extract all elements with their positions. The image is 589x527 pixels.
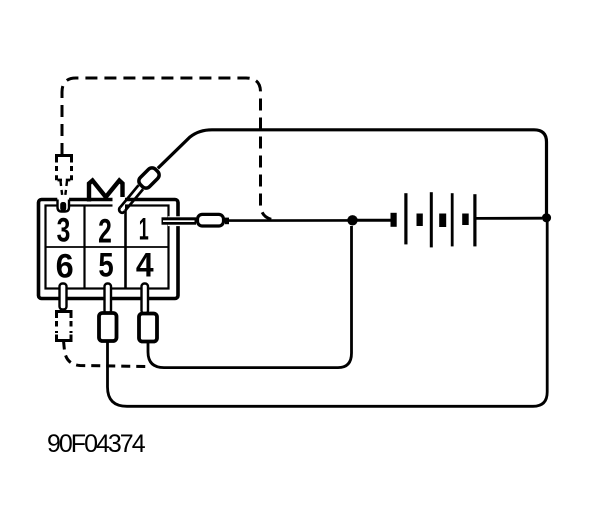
cavity number 2 (98, 213, 112, 251)
svg-text:4: 4 (136, 247, 154, 285)
pin 5 (105, 284, 112, 314)
wire from probe P1 to node A (229, 219, 349, 222)
grid divider between cavity 3/6 and 2/5 (83, 206, 85, 289)
svg-text:90F04374: 90F04374 (47, 430, 146, 458)
probe P1 entry gap in housing right wall (168, 216, 181, 226)
pin 4 (142, 284, 149, 314)
dashed wire from terminal T6 joining pin 4 wire (64, 341, 147, 367)
wire node B down and left to pin 5 (108, 221, 548, 406)
connector outer housing (39, 200, 179, 299)
grid divider between cavity 2/5 and 1/4 (124, 206, 127, 289)
wire from probe P2 to node B (158, 130, 547, 214)
probe P2 needle into cavity 2 (120, 185, 138, 207)
latch symbol M on housing top (89, 181, 123, 202)
wire pin 4 to node A (148, 226, 352, 368)
grid horizontal divider (46, 246, 169, 248)
pin 3 slot opening in housing top (57, 197, 69, 212)
probe P1 body (198, 214, 224, 226)
cavity number 1 (139, 213, 149, 247)
dashed jumper wire from terminal T3 up, right, down to node A (62, 78, 274, 220)
junction node A (347, 215, 357, 225)
test lead terminal T3 (dashed) on pin 3 (57, 156, 71, 181)
pin 3 dashed probe entry lines (61, 181, 63, 198)
test lead terminal T6 (dashed) on pin 6 (57, 311, 72, 341)
probe P1 tip bar into cavity 1 (162, 217, 197, 224)
svg-text:1: 1 (139, 213, 149, 247)
battery B1 (391, 213, 397, 227)
pin 6 (60, 284, 67, 310)
cavity number 4 (136, 247, 154, 285)
svg-text:5: 5 (98, 246, 113, 285)
cavity number 6 (56, 248, 74, 286)
wire battery to node B (477, 217, 543, 220)
junction node B (542, 213, 551, 222)
wire node A to battery (357, 219, 391, 222)
test lead terminal T4 on pin 4 (139, 314, 157, 342)
probe P2 entry gap in housing top (113, 197, 126, 214)
cavity number 3 (57, 212, 71, 250)
pin 3 tip inside slot (60, 202, 66, 211)
test lead terminal T5 on pin 5 (99, 313, 117, 341)
connector inner grid frame (46, 206, 169, 289)
probe P2 body (137, 166, 161, 190)
svg-text:3: 3 (57, 212, 71, 250)
probe P1 nub (225, 218, 229, 225)
cavity number 5 (98, 246, 113, 285)
svg-text:6: 6 (56, 248, 74, 286)
